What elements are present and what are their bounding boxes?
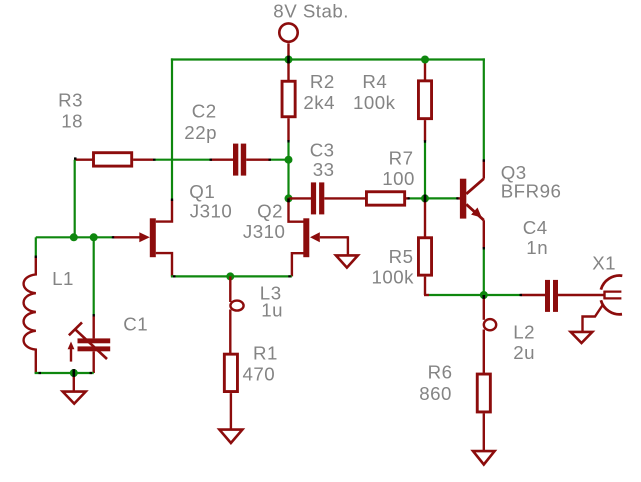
- wire node F to C1: [93, 237, 95, 315]
- wire node E to R3: [74, 160, 76, 238]
- node A junction: [285, 156, 293, 164]
- svg-text:J310: J310: [243, 221, 286, 242]
- svg-text:100k: 100k: [353, 92, 396, 113]
- inductor L1: [24, 237, 36, 373]
- wire tank bottom row: [35, 372, 94, 374]
- svg-text:1u: 1u: [261, 299, 283, 320]
- svg-text:X1: X1: [592, 253, 616, 274]
- svg-text:L2: L2: [513, 322, 535, 343]
- ground X1: [571, 332, 593, 343]
- wire node G ground stub: [73, 373, 75, 392]
- capacitor C4: [520, 280, 604, 312]
- resistor R6: [477, 374, 490, 451]
- inductor L2: [484, 295, 496, 373]
- wire node H row: [429, 294, 520, 296]
- transistor Q1: [113, 218, 172, 276]
- resistor R4: [418, 60, 431, 142]
- node C junction: [421, 194, 429, 202]
- svg-text:R7: R7: [389, 148, 414, 169]
- svg-text:18: 18: [61, 111, 83, 132]
- ground tank: [63, 392, 86, 404]
- svg-text:C1: C1: [123, 314, 148, 335]
- terminal 8V: [279, 23, 297, 59]
- node dot supply junction R4: [421, 56, 429, 64]
- svg-text:R2: R2: [310, 71, 335, 92]
- resistor R5: [418, 198, 431, 295]
- node stripe overlays: [74, 56, 484, 377]
- ground R6: [473, 451, 495, 464]
- svg-text:C3: C3: [310, 139, 335, 160]
- wire gate row left: [36, 236, 113, 238]
- svg-text:33: 33: [313, 159, 335, 180]
- wire Q1 drain lead: [156, 200, 172, 222]
- ground R1: [219, 430, 242, 443]
- wire C2 to node A: [270, 159, 289, 161]
- wire node C to Q3 base: [425, 197, 457, 199]
- wire node A to node B: [287, 160, 289, 199]
- node D junction: [226, 272, 234, 280]
- inductor L3: [230, 276, 243, 353]
- svg-text:860: 860: [419, 383, 452, 404]
- wire R4 to node C: [424, 141, 426, 198]
- node dot supply junction R2: [285, 56, 293, 64]
- wire right vertical bus: [483, 58, 485, 160]
- svg-text:22p: 22p: [184, 122, 217, 143]
- wire R2 to node A: [287, 141, 289, 160]
- resistor R1: [224, 354, 237, 429]
- svg-text:C2: C2: [192, 101, 217, 122]
- svg-text:J310: J310: [190, 201, 233, 222]
- connector X1: [583, 276, 623, 332]
- transistor Q2: [289, 198, 348, 276]
- node F junction: [90, 233, 98, 241]
- svg-text:1n: 1n: [526, 237, 548, 258]
- transistor Q3: [457, 160, 484, 248]
- svg-text:BFR96: BFR96: [501, 180, 562, 201]
- svg-text:R1: R1: [253, 342, 278, 363]
- wire R7 to node C: [409, 197, 425, 199]
- resistor R2: [282, 60, 295, 141]
- node E junction: [70, 233, 78, 241]
- svg-text:Q1: Q1: [189, 181, 215, 202]
- node H junction: [480, 291, 488, 299]
- svg-text:100k: 100k: [372, 267, 415, 288]
- ground Q2 gate: [336, 255, 358, 267]
- svg-text:Q2: Q2: [257, 200, 283, 221]
- wire source row Q1-Q2: [171, 275, 292, 277]
- svg-text:R5: R5: [389, 246, 414, 267]
- svg-text:8V Stab.: 8V Stab.: [273, 1, 349, 22]
- wire R3 to C2: [155, 159, 211, 161]
- node G junction: [70, 369, 78, 377]
- svg-text:470: 470: [243, 363, 276, 384]
- wire tick marks: [36, 140, 522, 373]
- node B junction: [285, 194, 293, 202]
- svg-text:2k4: 2k4: [303, 92, 335, 113]
- capacitor C3: [289, 182, 366, 214]
- svg-text:R6: R6: [428, 362, 453, 383]
- svg-text:R3: R3: [58, 89, 83, 110]
- svg-text:2u: 2u: [513, 342, 535, 363]
- svg-text:C4: C4: [523, 217, 548, 238]
- wire Q3 emitter to node H: [483, 248, 485, 295]
- wire top supply bus: [171, 58, 485, 60]
- resistor R7: [366, 192, 409, 205]
- wire left vertical bus to Q1 drain: [171, 58, 173, 199]
- capacitor C1 trimmer: [68, 316, 111, 374]
- capacitor C2: [211, 144, 270, 176]
- svg-text:R4: R4: [362, 71, 387, 92]
- svg-text:100: 100: [382, 168, 415, 189]
- resistor R3: [75, 153, 154, 166]
- svg-text:L1: L1: [52, 268, 74, 289]
